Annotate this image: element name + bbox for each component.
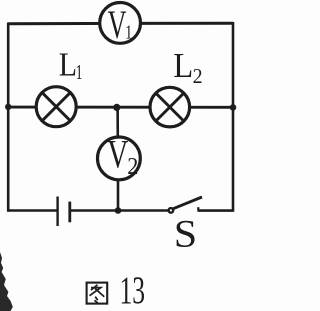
label L2 <box>173 47 202 88</box>
node bottom <box>115 207 122 214</box>
svg-text:1: 1 <box>125 21 132 43</box>
node center <box>113 104 120 111</box>
wire V2 vertical top <box>116 108 119 139</box>
switch S <box>169 197 202 213</box>
battery <box>58 197 70 227</box>
voltmeter V2 <box>98 132 141 180</box>
label L1 <box>59 45 83 84</box>
scan smudge bottom-left <box>0 252 13 311</box>
node left <box>5 104 11 110</box>
svg-text:L: L <box>59 45 77 83</box>
lamp L1 <box>36 87 76 127</box>
voltmeter V1 <box>100 3 141 48</box>
svg-text:V: V <box>108 4 127 48</box>
caption 图 13 <box>87 270 145 311</box>
lamp L2 <box>150 87 190 127</box>
svg-text:13: 13 <box>120 270 146 311</box>
wire bottom mid <box>70 209 171 212</box>
svg-text:S: S <box>174 212 197 255</box>
svg-text:2: 2 <box>127 153 138 180</box>
svg-text:2: 2 <box>193 65 203 88</box>
label S <box>174 212 197 255</box>
wire V2 vertical bottom <box>117 179 120 211</box>
wire top <box>8 22 233 26</box>
svg-text:L: L <box>173 47 193 85</box>
wire right <box>232 22 235 212</box>
svg-text:V: V <box>107 132 128 177</box>
wire left <box>7 23 10 212</box>
wire bottom right <box>198 209 234 212</box>
svg-text:1: 1 <box>76 60 83 84</box>
node right <box>230 104 237 111</box>
wire middle <box>8 106 233 109</box>
wire bottom left <box>8 209 57 212</box>
